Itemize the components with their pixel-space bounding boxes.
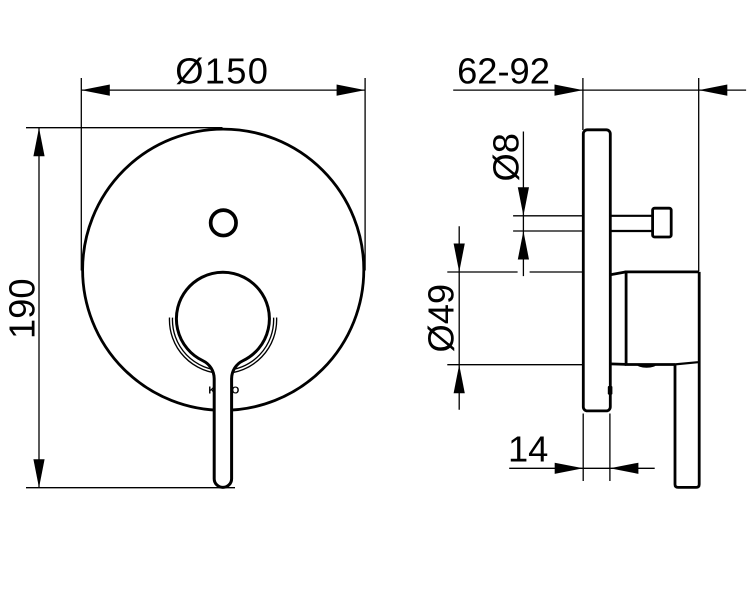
set screw on plate right face (side view)	[608, 386, 613, 395]
diverter knob (side view)	[653, 208, 672, 237]
escutcheon plate circle (front view, Ø150)	[83, 129, 364, 410]
dimension Ø150 line	[81, 89, 365, 91]
dimension 62-92 left extension line	[582, 78, 584, 130]
lever top edge slant (side view)	[675, 362, 698, 364]
dimension 14 left extension line	[582, 414, 584, 482]
svg-text:Ø8: Ø8	[486, 133, 527, 181]
hub neck bottom edge (side view)	[610, 362, 626, 365]
svg-text:62-92: 62-92	[457, 51, 550, 92]
hub neck top edge (side view)	[610, 272, 626, 275]
dimension Ø150 left extension line	[80, 78, 82, 271]
dimension 62-92 line	[453, 89, 746, 91]
dimension Ø8 line	[522, 132, 524, 277]
dimension Ø49 line	[458, 226, 460, 409]
dimension Ø150 right arrow	[337, 85, 366, 96]
set screw under hub bottom (side view)	[637, 364, 656, 367]
dimension Ø49 lower arrow	[454, 365, 465, 394]
dimension 14 right arrow	[610, 463, 639, 474]
lever handle (hub + stem) front view outline	[176, 272, 269, 487]
diverter rod bottom line (side view)	[612, 230, 654, 232]
wall plate (side view) rounded rectangle	[583, 130, 610, 411]
dimension Ø150 left arrow	[81, 85, 110, 96]
dimension 190 bottom arrow	[33, 459, 44, 488]
dimension 62-92 right arrow	[699, 85, 728, 96]
dimension Ø49 upper extension line (hub top, segment b)	[530, 271, 582, 273]
trim ring inner arc under handle hub	[172, 318, 273, 371]
dimension 190 top extension line (tangent at circle top)	[26, 127, 223, 129]
dimension 14 right extension line	[609, 414, 611, 482]
lever handle (side view)	[675, 272, 699, 488]
dimension Ø49 upper arrow	[454, 244, 465, 273]
dimension 62-92 right extension line	[698, 78, 700, 271]
dimension Ø8 lower arrow	[518, 231, 529, 260]
svg-text:190: 190	[2, 278, 43, 339]
dimension 62-92 left arrow	[555, 85, 584, 96]
svg-text:Ø150: Ø150	[175, 51, 269, 92]
dimension Ø49 upper extension line (hub top, segment a)	[447, 271, 517, 273]
diverter button circle	[211, 210, 236, 235]
dimension 190 line	[38, 128, 40, 488]
dimension 14 line	[509, 467, 655, 469]
svg-text:14: 14	[508, 428, 548, 469]
diverter rod top line (side view)	[612, 215, 654, 217]
svg-text:Ø49: Ø49	[420, 284, 461, 353]
dimension 14 left arrow	[555, 463, 584, 474]
dimension 190 top arrow	[33, 128, 44, 157]
trim ring outer arc under handle hub	[169, 318, 276, 374]
Ø8 extension line top (rod top extended left)	[513, 215, 582, 217]
dimension Ø150 right extension line	[364, 78, 366, 271]
handle hub cylinder (side view)	[626, 272, 699, 365]
dimension Ø49 lower extension line (hub bottom)	[447, 364, 582, 366]
dimension Ø8 upper arrow	[518, 187, 529, 216]
Ø8 extension line bottom (rod bottom extended left)	[513, 230, 582, 232]
extension line, 190 bottom (at lever tip)	[26, 487, 235, 489]
